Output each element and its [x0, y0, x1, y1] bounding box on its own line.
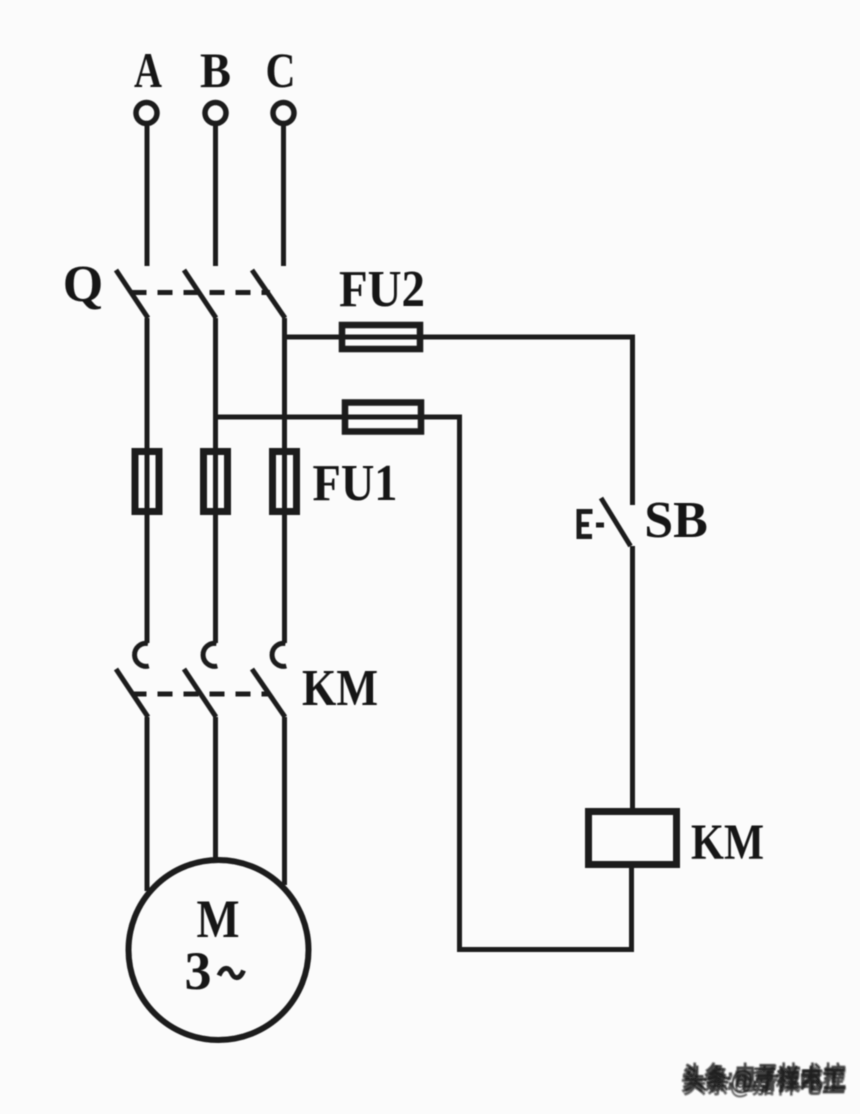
wire C to fuse FU2a — [285, 335, 343, 340]
wire coil to bottom — [629, 864, 634, 950]
wire B to fuse FU2b — [216, 415, 343, 420]
wire B Q to FU1 — [213, 318, 218, 450]
motor M circle — [129, 860, 309, 1040]
wire SB to coil — [630, 546, 635, 808]
motor tilde — [219, 968, 244, 977]
coil KM body — [589, 812, 677, 865]
fuse FU1 phase C element — [282, 448, 287, 515]
contactor KM linkage dashed — [132, 692, 271, 697]
svg-text:FU2: FU2 — [339, 261, 425, 318]
fuse FU2a element wire — [342, 335, 420, 340]
wire A Q to FU1 — [145, 318, 150, 450]
pushbutton SB blade — [601, 498, 631, 546]
wire B FU1 to KM — [213, 515, 218, 643]
fuse FU1 phase C body — [273, 452, 297, 512]
svg-text:3: 3 — [185, 941, 212, 1001]
switch Q linkage dashed — [132, 290, 271, 295]
svg-text:SB: SB — [644, 492, 708, 549]
contactor KM pole 2 blade — [184, 669, 216, 717]
control return wire vertical — [457, 415, 462, 951]
svg-text:头条:电子技术控: 头条:电子技术控 — [683, 1064, 847, 1094]
svg-text:B: B — [200, 42, 231, 98]
contactor KM pole 1 blade — [116, 669, 148, 717]
terminal B circle — [205, 103, 226, 124]
contactor KM pole 2 arc — [203, 643, 217, 666]
contactor KM pole 1 arc — [135, 643, 149, 666]
watermark text back — [683, 1064, 846, 1099]
contactor KM pole 3 blade — [252, 669, 285, 717]
fuse FU2b body — [345, 403, 421, 432]
svg-text:KM: KM — [302, 660, 378, 717]
watermark text front — [681, 1062, 847, 1096]
fuse FU1 phase A element — [145, 448, 150, 515]
wire A top — [145, 126, 150, 266]
wire C Q to FU1 — [282, 318, 287, 450]
wire A FU1 to KM — [145, 515, 150, 643]
terminal C circle — [273, 103, 294, 124]
wire C top — [281, 126, 286, 266]
svg-text:C: C — [266, 42, 296, 98]
fuse FU2a body — [342, 325, 420, 349]
terminal A circle — [136, 103, 157, 124]
switch Q pole 3 blade — [252, 270, 285, 318]
fuse FU1 phase B body — [204, 452, 228, 512]
fuse FU1 phase A body — [135, 452, 159, 512]
wire A KM to motor — [145, 717, 150, 891]
wire FU2a to SB branch — [420, 335, 633, 340]
switch Q pole 1 blade — [116, 270, 148, 318]
switch Q pole 2 blade — [184, 270, 216, 318]
svg-text:M: M — [197, 889, 240, 949]
wire C KM to motor — [282, 717, 287, 885]
fuse FU1 phase B element — [213, 448, 218, 515]
pushbutton SB link dash — [596, 523, 604, 528]
wire down to SB — [630, 335, 635, 506]
contactor KM pole 3 arc — [272, 643, 286, 666]
svg-text:A: A — [134, 42, 162, 98]
wire B KM to motor — [213, 717, 218, 858]
wire C FU1 to KM — [282, 515, 287, 643]
pushbutton SB actuator — [579, 512, 593, 537]
wire B top — [213, 126, 218, 266]
svg-text:KM: KM — [691, 815, 764, 871]
svg-text:FU1: FU1 — [313, 455, 398, 512]
svg-text:Q: Q — [63, 256, 103, 313]
fuse FU2b element wire — [342, 415, 422, 420]
bottom return wire — [457, 947, 634, 952]
wire FU2b to return branch — [422, 415, 460, 420]
